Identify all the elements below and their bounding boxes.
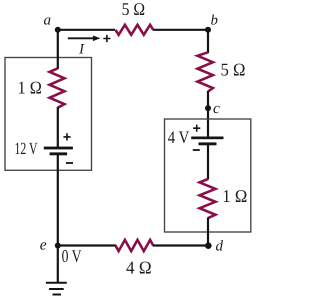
svg-text:1 Ω: 1 Ω (18, 78, 42, 98)
svg-text:d: d (215, 239, 223, 255)
battery 12V plus sign (63, 133, 70, 140)
svg-text:5 Ω: 5 Ω (221, 60, 246, 80)
battery 12V long plate (44, 147, 73, 150)
svg-text:5 Ω: 5 Ω (122, 0, 146, 19)
svg-text:b: b (211, 13, 218, 29)
battery 12V minus sign (66, 162, 73, 164)
wire 1ohm right to node d (207, 218, 209, 246)
wire 4ohm to node d (153, 244, 208, 246)
resistor 5ohm right (198, 52, 213, 91)
wire top a-b left segment (58, 29, 115, 31)
svg-text:1 Ω: 1 Ω (222, 186, 247, 206)
wire a down to 1ohm (57, 30, 59, 69)
battery 4V short plate (199, 142, 217, 145)
node b dot (205, 27, 211, 33)
wire top a-b right segment (153, 29, 208, 31)
battery 4V plus sign (193, 125, 200, 132)
wire b down to 5ohm right (207, 30, 209, 53)
current plus sign (103, 35, 110, 42)
svg-text:c: c (213, 100, 220, 117)
node a dot (55, 27, 61, 33)
resistor 1ohm left (50, 68, 65, 107)
wire 5ohm right to battery 4V (207, 91, 209, 137)
battery 4V long plate (191, 137, 223, 140)
svg-text:12 V: 12 V (15, 139, 38, 158)
wire e to ground (57, 246, 59, 283)
node d dot (205, 242, 212, 249)
wire battery 4V to 1ohm right (207, 144, 209, 180)
battery 4V minus sign (193, 149, 200, 151)
node e dot (55, 243, 61, 249)
current arrow I (68, 37, 94, 39)
svg-text:a: a (44, 13, 52, 29)
svg-text:4 Ω: 4 Ω (126, 257, 152, 277)
ground bar 3 (53, 294, 62, 296)
svg-text:I: I (78, 42, 85, 58)
ground bar 1 (46, 282, 67, 284)
right source box (165, 119, 251, 232)
resistor 1ohm right (200, 179, 216, 218)
svg-text:e: e (40, 236, 47, 253)
left source box (5, 58, 92, 171)
resistor 5ohm top (116, 25, 154, 35)
ground bar 2 (49, 288, 64, 290)
resistor 4ohm bottom (116, 240, 154, 251)
wire e to 4ohm (58, 244, 116, 246)
svg-text:4 V: 4 V (168, 127, 190, 147)
wire 1ohm to battery 12V (57, 107, 59, 148)
svg-text:0 V: 0 V (62, 246, 82, 266)
node c dot (205, 105, 211, 111)
battery 12V short plate (50, 152, 68, 155)
wire battery 12V to node e (57, 154, 59, 246)
